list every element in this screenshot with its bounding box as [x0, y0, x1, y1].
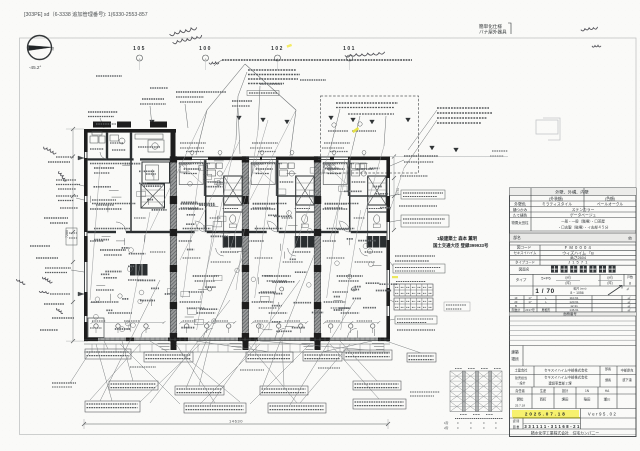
svg-text:ゲータベージュ: ゲータベージュ: [570, 212, 596, 217]
left margin labels: [56, 179, 76, 181]
svg-text:瀬川: 瀬川: [604, 397, 611, 402]
svg-text:[303PE] sd（6-3338 追加管理番号): 1(6: [303PE] sd（6-3338 追加管理番号): 1(6330-2553-8…: [24, 10, 148, 18]
svg-text:他: 他: [628, 236, 632, 241]
dashed boundary: [321, 96, 419, 173]
svg-text:3 3 1 1 1 1 - 3 1 1 6 8 - 2 1: 3 3 1 1 1 1 - 3 1 1 6 8 - 2 1: [524, 424, 580, 429]
svg-text:2730: 2730: [396, 188, 400, 195]
svg-text:ペールオークル: ペールオークル: [597, 201, 624, 206]
svg-text:場所: 場所: [511, 357, 519, 362]
svg-text:102: 102: [271, 46, 284, 52]
svg-text:ステンカラー: ステンカラー: [572, 207, 595, 212]
svg-text:責任者: 責任者: [515, 388, 525, 393]
bottom callout boxes: [85, 349, 131, 359]
unit interior at 176.7: [205, 160, 207, 232]
svg-text:セキスイハイム: セキスイハイム: [514, 250, 537, 255]
svg-text:25.7.18: 25.7.18: [515, 404, 525, 408]
svg-text:波下達: 波下達: [622, 377, 632, 382]
svg-text:(坪): (坪): [607, 280, 612, 285]
svg-text:F M 0 0 0 4: F M 0 0 0 4: [565, 245, 592, 250]
legend grid boxes: [394, 284, 433, 296]
svg-text:(外装額): (外装額): [549, 196, 564, 201]
svg-text:2 0 2 5 . 0 7 . 1 8: 2 0 2 5 . 0 7 . 1 8: [525, 412, 565, 417]
svg-text:認 間: 認 間: [513, 418, 520, 423]
svg-text:面積番号: 面積番号: [563, 311, 577, 316]
scatter annotations: [363, 244, 368, 249]
svg-text:-45.2°: -45.2°: [29, 65, 41, 70]
structural brace diagram: [450, 371, 502, 412]
svg-text:100: 100: [199, 46, 212, 52]
svg-text:J 1 5 7 1: J 1 5 7 1: [568, 260, 588, 265]
svg-text:課田: 課田: [562, 397, 569, 402]
svg-text:課長: 課長: [605, 377, 611, 382]
svg-text:生産: 生産: [540, 388, 546, 393]
left dimension chain: [72, 129, 74, 341]
svg-text:西町: 西町: [540, 398, 547, 402]
svg-text:1級建築士 森本 薫明: 1級建築士 森本 薫明: [437, 235, 478, 242]
leader lines: [104, 341, 108, 349]
svg-text:・設計: ・設計: [516, 380, 525, 385]
svg-text:図コード: 図コード: [517, 246, 532, 250]
svg-text:N: N: [50, 47, 55, 50]
svg-text:7280: 7280: [65, 230, 69, 238]
svg-text:(㎡): (㎡): [565, 275, 570, 280]
pencil notes: [169, 26, 197, 36]
svg-text:2F17号: 2F17号: [525, 307, 535, 312]
bottom dimension: [84, 423, 388, 425]
svg-text:・口志聖（磁場）・イ志部４５分: ・口志聖（磁場）・イ志部４５分: [558, 225, 609, 230]
svg-text:(㎡): (㎡): [607, 275, 612, 280]
svg-text:バナ屋外器具: バナ屋外器具: [479, 29, 507, 36]
unit interior at 248.7: [277, 160, 279, 232]
annotation cluster: [248, 69, 296, 71]
top annotation string: [222, 59, 412, 61]
svg-text:5×P6: 5×P6: [541, 276, 551, 281]
svg-text:2階: 2階: [444, 426, 449, 430]
right small dim: [393, 157, 395, 231]
unit1 interior: [88, 158, 134, 160]
svg-text:1N: 1N: [585, 389, 590, 393]
svg-text:国土交通大臣 登録399933号: 国土交通大臣 登録399933号: [433, 242, 489, 249]
svg-text:1 / 70: 1 / 70: [535, 288, 554, 295]
svg-text:一般・一般（階場）・口茶屋: 一般・一般（階場）・口茶屋: [561, 219, 605, 224]
svg-text:建築: 建築: [511, 350, 519, 355]
svg-text:物置太田柱: 物置太田柱: [512, 220, 530, 225]
svg-text:8: 8: [629, 282, 631, 286]
svg-text:戸数: 戸数: [627, 274, 633, 279]
svg-text:タイプ: タイプ: [516, 277, 527, 282]
svg-text:V e r 9 5 . 0 2: V e r 9 5 . 0 2: [588, 412, 617, 417]
svg-text:積水化学工業株式会社 住宅カンパニー: 積水化学工業株式会社 住宅カンパニー: [531, 430, 600, 435]
svg-text:101: 101: [343, 46, 356, 52]
svg-text:屋根形: 屋根形: [542, 307, 551, 312]
svg-text:部長: 部長: [605, 366, 611, 371]
porch lines: [84, 343, 390, 345]
svg-text:図 書: 図 書: [513, 424, 520, 429]
svg-text:階数計: 階数計: [512, 307, 521, 312]
svg-text:ミラティスタイル: ミラティスタイル: [542, 201, 572, 206]
svg-text:部名: 部名: [513, 235, 521, 240]
svg-text:中部慶充: 中部慶充: [621, 368, 635, 373]
svg-text:(色額): (色額): [605, 196, 616, 201]
vent marks: [120, 122, 125, 126]
svg-text:實松: 實松: [517, 397, 524, 402]
svg-text:外壁色: 外壁色: [514, 201, 526, 206]
svg-text:たて樋色: たて樋色: [513, 212, 528, 217]
svg-text:105: 105: [133, 46, 146, 52]
svg-text:8 ~ 1056: 8 ~ 1056: [570, 291, 583, 295]
svg-text:縮尺 (mm): 縮尺 (mm): [574, 287, 587, 291]
svg-text:1階: 1階: [444, 421, 449, 425]
right top cluster: [437, 107, 489, 109]
svg-text:17: 17: [528, 300, 532, 304]
svg-text:稲田: 稲田: [584, 397, 591, 402]
svg-text:設計: 設計: [562, 388, 569, 393]
svg-text:14630: 14630: [229, 419, 243, 424]
svg-text:土建会社: 土建会社: [515, 368, 529, 373]
svg-text:樋つかみ: 樋つかみ: [513, 207, 528, 212]
svg-text:㎡: ㎡: [628, 307, 631, 312]
svg-text:〆: 〆: [626, 287, 629, 291]
svg-text:建設事業部２課: 建設事業部２課: [548, 381, 572, 386]
title block: [510, 188, 637, 437]
svg-text:図面名: 図面名: [519, 267, 530, 272]
svg-text:セキスイハイム中部株式会社: セキスイハイム中部株式会社: [544, 368, 588, 373]
north arrow: [28, 36, 52, 60]
unit interior at 320.7: [349, 160, 351, 232]
right margin callouts: [404, 155, 438, 157]
svg-text:建売担当: 建売担当: [515, 375, 527, 380]
svg-text:タイプコード: タイプコード: [515, 260, 535, 265]
svg-text:(坪): (坪): [565, 280, 570, 285]
exterior walls: [84, 129, 176, 133]
svg-text:外壁、外構、内壁: 外壁、外構、内壁: [555, 188, 589, 195]
boundary line to title block: [390, 156, 508, 158]
svg-text:セキスイハイム中部株式会社: セキスイハイム中部株式会社: [544, 375, 588, 380]
svg-text:ウィズハイム 「B: ウィズハイム 「B: [562, 249, 594, 255]
